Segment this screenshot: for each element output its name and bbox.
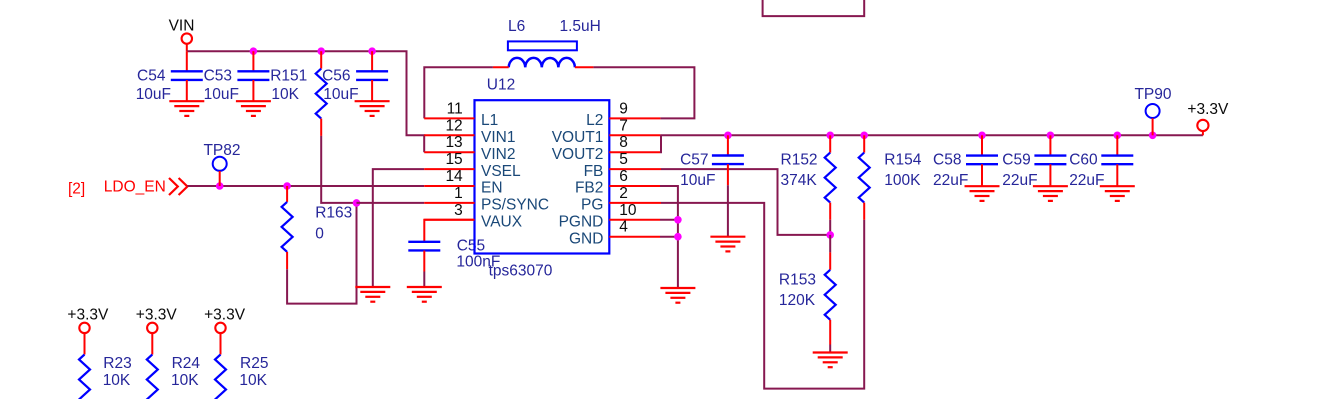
svg-text:R153: R153 <box>779 272 816 289</box>
svg-text:C54: C54 <box>137 68 166 85</box>
pin 10 PGND <box>559 202 660 231</box>
pin 3 VAUX <box>424 202 523 231</box>
svg-text:10uF: 10uF <box>204 86 239 103</box>
wire VAUX to C55 <box>424 220 474 242</box>
ground below FB2 <box>660 288 695 303</box>
svg-text:VOUT1: VOUT1 <box>552 129 604 146</box>
node LDO_EN-TP82 junction <box>216 182 224 190</box>
capacitor C54 <box>136 51 203 103</box>
ground below C56 <box>355 101 390 116</box>
svg-text:R23: R23 <box>103 355 131 372</box>
resistor R153 <box>779 235 836 353</box>
resistor R24 <box>147 333 201 399</box>
svg-text:GND: GND <box>569 230 603 247</box>
svg-text:R163: R163 <box>315 204 352 221</box>
resistor R152 <box>781 135 836 235</box>
port LDO_EN <box>104 178 188 195</box>
svg-text:C58: C58 <box>933 151 961 168</box>
node VIN-R151 junction <box>317 47 325 55</box>
svg-text:+3.3V: +3.3V <box>1187 101 1229 118</box>
svg-text:10K: 10K <box>171 372 199 389</box>
svg-text:R25: R25 <box>240 355 268 372</box>
svg-text:C53: C53 <box>204 68 232 85</box>
ground below C58 <box>965 186 1000 201</box>
svg-text:VOUT2: VOUT2 <box>552 146 604 163</box>
svg-text:LDO_EN: LDO_EN <box>104 178 166 195</box>
wire R163 bottom loop to PS/SYNC node <box>287 203 356 304</box>
svg-text:L2: L2 <box>586 112 603 129</box>
pin 13 VIN2 <box>424 134 515 163</box>
inductor L6 <box>493 18 601 67</box>
power +3.3V above R24 <box>136 307 178 334</box>
svg-text:C60: C60 <box>1069 151 1098 168</box>
ground below C59 <box>1033 186 1068 201</box>
svg-text:10K: 10K <box>271 86 299 103</box>
ground below C60 <box>1100 186 1135 201</box>
wire LDO_EN to EN pin <box>188 185 425 187</box>
ground below R153 <box>813 353 848 368</box>
ground below C57 <box>710 237 745 252</box>
node FB divider junction <box>826 231 834 239</box>
resistor R25 <box>215 333 268 399</box>
svg-text:10: 10 <box>619 202 637 219</box>
node LDO_EN-R163 junction <box>283 182 291 190</box>
node VIN-C53 junction <box>250 47 258 55</box>
pin 5 FB <box>584 151 661 180</box>
svg-text:R151: R151 <box>270 68 307 85</box>
capacitor C53 <box>204 51 270 103</box>
node rail-C60 junction <box>1114 132 1122 140</box>
svg-text:11: 11 <box>447 100 463 117</box>
ground below C53 <box>236 101 271 116</box>
svg-text:L6: L6 <box>508 18 525 35</box>
svg-text:14: 14 <box>445 168 463 185</box>
node rail-C59 junction <box>1047 132 1055 140</box>
node rail-C57 junction <box>724 132 732 140</box>
pin 9 L2 <box>586 100 660 129</box>
svg-text:8: 8 <box>619 134 628 151</box>
pin 12 VIN1 <box>424 117 515 146</box>
svg-text:+3.3V: +3.3V <box>136 307 178 324</box>
resistor R163 <box>282 186 353 269</box>
wire L6 left to L1 pin <box>424 67 493 118</box>
wire PS/SYNC node to pin 1 <box>357 202 425 204</box>
wire VOUT rail <box>660 134 1203 136</box>
svg-text:10uF: 10uF <box>136 86 171 103</box>
resistor R151 <box>270 51 327 136</box>
svg-text:10uF: 10uF <box>680 172 715 189</box>
svg-text:10K: 10K <box>239 372 267 389</box>
node VIN-C56 junction <box>368 47 376 55</box>
svg-text:tps63070: tps63070 <box>489 263 553 280</box>
svg-text:9: 9 <box>619 100 628 117</box>
pin 15 VSEL <box>424 151 521 180</box>
capacitor C58 <box>933 135 998 189</box>
capacitor C55 <box>408 237 500 287</box>
svg-text:374K: 374K <box>781 172 818 189</box>
svg-text:1.5uH: 1.5uH <box>560 18 601 35</box>
pin 8 VOUT2 <box>552 134 660 163</box>
wire VIN rail <box>187 51 424 152</box>
svg-text:22uF: 22uF <box>1069 172 1104 189</box>
svg-text:VIN1: VIN1 <box>481 129 515 146</box>
capacitor C60 <box>1069 135 1133 189</box>
capacitor C56 <box>322 51 388 103</box>
resistor R23 <box>79 333 132 399</box>
svg-text:5: 5 <box>619 151 628 168</box>
svg-text:PS/SYNC: PS/SYNC <box>481 197 549 214</box>
svg-text:120K: 120K <box>779 292 816 309</box>
svg-text:FB: FB <box>584 163 604 180</box>
wire FB2 PGND GND to ground <box>660 186 678 288</box>
svg-text:22uF: 22uF <box>1002 172 1037 189</box>
wire R151 bottom to PS/SYNC node <box>321 136 356 203</box>
resistor R154 <box>859 135 922 220</box>
svg-text:VAUX: VAUX <box>481 214 523 231</box>
svg-text:C59: C59 <box>1002 151 1030 168</box>
wire VOUT2 to rail <box>660 135 661 152</box>
pin 4 GND <box>569 219 660 248</box>
node PGND junction <box>674 216 682 224</box>
node rail-C58 junction <box>978 132 986 140</box>
IC U12 body tps63070 <box>475 77 610 280</box>
svg-text:10uF: 10uF <box>323 86 358 103</box>
pin 1 PS/SYNC <box>424 185 549 214</box>
svg-text:+3.3V: +3.3V <box>204 307 246 324</box>
svg-text:13: 13 <box>445 134 462 151</box>
svg-text:VSEL: VSEL <box>481 163 521 180</box>
svg-text:22uF: 22uF <box>933 172 968 189</box>
wire fragment top right <box>763 0 865 16</box>
svg-text:TP90: TP90 <box>1134 86 1171 103</box>
ground below C55 <box>407 287 442 302</box>
svg-text:2: 2 <box>619 185 628 202</box>
node GND junction <box>674 233 682 241</box>
node rail-R154 junction <box>860 132 868 140</box>
pin 14 EN <box>424 168 502 197</box>
svg-text:6: 6 <box>619 168 628 185</box>
wire FB to divider node <box>661 169 830 235</box>
svg-text:PG: PG <box>581 197 603 214</box>
ground below VSEL wire <box>355 287 390 302</box>
node PS/SYNC junction <box>353 199 361 207</box>
pin 6 FB2 <box>575 168 660 197</box>
wire L6 right to L2 pin <box>593 67 694 118</box>
capacitor C59 <box>1002 135 1066 189</box>
svg-text:C57: C57 <box>680 151 708 168</box>
svg-text:VIN: VIN <box>169 18 195 35</box>
svg-text:[2]: [2] <box>68 181 85 198</box>
svg-text:L1: L1 <box>481 112 498 129</box>
svg-text:7: 7 <box>619 117 628 134</box>
pin 2 PG <box>581 185 661 214</box>
test point TP82 <box>203 142 240 186</box>
svg-text:VIN2: VIN2 <box>481 146 515 163</box>
test point TP90 <box>1134 86 1171 135</box>
svg-text:1: 1 <box>454 185 463 202</box>
svg-text:+3.3V: +3.3V <box>67 307 109 324</box>
wire PG loop to R154 <box>661 203 864 389</box>
power port VIN <box>169 18 195 52</box>
svg-text:15: 15 <box>445 151 462 168</box>
svg-text:3: 3 <box>454 202 463 219</box>
power +3.3V at rail end <box>1187 101 1229 135</box>
svg-text:10K: 10K <box>103 372 131 389</box>
node rail-TP90 junction <box>1149 132 1157 140</box>
svg-text:U12: U12 <box>487 77 515 94</box>
svg-text:12: 12 <box>445 117 462 134</box>
power +3.3V above R25 <box>204 307 246 334</box>
svg-text:C56: C56 <box>322 68 350 85</box>
pin 11 L1 <box>424 100 498 129</box>
svg-text:FB2: FB2 <box>575 180 603 197</box>
power +3.3V above R23 <box>67 307 109 334</box>
svg-text:4: 4 <box>619 219 628 236</box>
capacitor C57 <box>680 135 744 236</box>
svg-text:PGND: PGND <box>559 214 604 231</box>
pin 7 VOUT1 <box>552 117 661 146</box>
node rail-R152 junction <box>826 132 834 140</box>
svg-text:0: 0 <box>315 225 324 242</box>
svg-text:100K: 100K <box>884 172 921 189</box>
svg-text:R24: R24 <box>172 355 201 372</box>
svg-text:EN: EN <box>481 180 503 197</box>
ground below C54 <box>169 101 204 116</box>
svg-text:R154: R154 <box>884 151 921 168</box>
wire VSEL to ground <box>373 169 424 287</box>
svg-text:C55: C55 <box>457 237 485 254</box>
svg-text:R152: R152 <box>781 151 818 168</box>
